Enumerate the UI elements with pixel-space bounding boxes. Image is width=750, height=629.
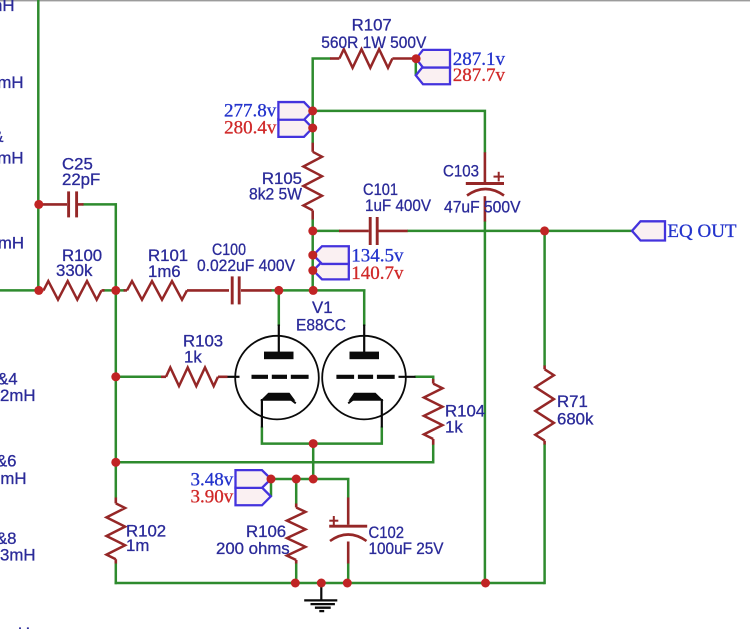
svg-text:1k: 1k xyxy=(445,418,463,437)
label fragment 7&8 xyxy=(0,529,17,548)
label fragment 5&6 xyxy=(0,452,17,471)
wire right plate lead xyxy=(363,290,366,326)
probe flag 280.4v xyxy=(278,119,312,137)
junction R71-output xyxy=(540,226,549,235)
resistor R106 xyxy=(216,504,306,564)
wire C103 bottom to ground xyxy=(484,221,487,584)
svg-text:1m6: 1m6 xyxy=(148,262,181,281)
capacitor C101 xyxy=(339,180,432,245)
svg-text:5&6: 5&6 xyxy=(0,452,17,471)
wire R107 to probe dot xyxy=(412,57,417,60)
wire grid to R104 xyxy=(415,377,434,380)
svg-text:R71: R71 xyxy=(557,392,588,411)
wire stub to 287.7v flag xyxy=(415,59,418,76)
wire output net to EQ OUT xyxy=(407,230,633,233)
svg-text:8k2 5W: 8k2 5W xyxy=(249,184,302,203)
probe flag 134.5v xyxy=(313,246,349,264)
resistor R103 xyxy=(161,332,228,387)
junction probe 287.1v xyxy=(412,54,421,63)
wire right cathode drop xyxy=(313,427,382,444)
junction C102 ground xyxy=(343,579,352,588)
resistor R101 xyxy=(124,246,230,300)
voltage label 134.5v xyxy=(351,246,404,267)
wire C102 bottom xyxy=(347,563,350,584)
capacitor C25 xyxy=(40,155,100,218)
svg-text:200 ohms: 200 ohms xyxy=(216,539,290,558)
svg-text:680k: 680k xyxy=(557,410,594,429)
wire R106 top xyxy=(295,479,298,504)
junction cathode-C102 xyxy=(309,475,318,484)
voltage label 140.7v xyxy=(351,263,404,284)
wire between R100 and R101 xyxy=(103,289,125,292)
label fragment mH 6 xyxy=(0,469,26,488)
svg-text:mH: mH xyxy=(0,73,24,92)
label fragment mH 4 xyxy=(0,234,24,253)
svg-text:140.7v: 140.7v xyxy=(351,263,404,284)
svg-text:287.7v: 287.7v xyxy=(453,65,506,86)
wire node-A vertical x=116 xyxy=(115,203,118,498)
probe flag 3.90v xyxy=(236,488,271,506)
label fragment 1.3mH xyxy=(0,546,36,565)
resistor R100 xyxy=(40,246,105,300)
wire probe row y=479 xyxy=(271,479,348,498)
voltage label 3.48v xyxy=(190,470,233,491)
resistor R102 xyxy=(107,498,167,564)
junction C25-left xyxy=(34,200,43,209)
wire top net to C103 xyxy=(313,111,485,153)
junction R106 ground xyxy=(291,579,300,588)
svg-text:1.2mH: 1.2mH xyxy=(0,386,36,405)
wire C101 left stub xyxy=(313,230,340,233)
wire R105 bottom to grid-node xyxy=(311,219,314,292)
svg-text:330k: 330k xyxy=(56,261,93,280)
wire stub to 3.90v flag xyxy=(270,479,273,496)
junction R106 top xyxy=(292,475,301,484)
wire R102 bottom xyxy=(115,563,118,584)
wire plate supply node x=313 xyxy=(311,111,314,143)
svg-text:EQ OUT: EQ OUT xyxy=(667,221,737,242)
junction plate node xyxy=(309,286,318,295)
voltage label 280.4v xyxy=(224,118,277,139)
label fragment 3&4 xyxy=(0,370,18,389)
wire cathode to probe node xyxy=(312,444,315,480)
wire feedback rail y=462 xyxy=(116,444,433,462)
triode V1 E88CC xyxy=(228,298,416,428)
junction cathode xyxy=(309,439,318,448)
svg-text:560R 1W 500V: 560R 1W 500V xyxy=(321,33,427,52)
voltage label 287.7v xyxy=(453,65,506,86)
wire C100 to plate node xyxy=(271,289,366,292)
svg-text:C103: C103 xyxy=(443,162,479,181)
probe flag 140.7v xyxy=(313,262,349,280)
svg-text:280.4v: 280.4v xyxy=(224,118,277,139)
svg-text:22pF: 22pF xyxy=(62,170,100,189)
probe flag 277.8v xyxy=(278,102,312,120)
label fragment mH 3 xyxy=(0,149,24,168)
junction input node xyxy=(34,286,43,295)
svg-text:mH: mH xyxy=(0,234,24,253)
label fragment mH 2 xyxy=(0,73,24,92)
junction probe 3.48v xyxy=(267,475,276,484)
junction probe 140.7v xyxy=(308,266,317,275)
svg-text:mH: mH xyxy=(0,0,15,15)
junction R103 branch xyxy=(111,372,120,381)
probe flag 287.7v xyxy=(416,67,450,85)
label fragment amp 3 xyxy=(0,127,4,146)
wire left plate lead xyxy=(278,290,281,326)
port EQ OUT xyxy=(632,221,737,242)
wire C25 branch xyxy=(83,203,118,206)
junction probe 277.8v xyxy=(308,106,317,115)
svg-text:E88CC: E88CC xyxy=(296,316,346,335)
junction C103 ground xyxy=(481,579,490,588)
probe flag 3.48v xyxy=(236,470,272,488)
wire R103 stub xyxy=(116,376,162,379)
ground xyxy=(304,583,337,611)
svg-text:100uF 25V: 100uF 25V xyxy=(369,539,445,558)
svg-text:3.90v: 3.90v xyxy=(190,487,233,508)
resistor R105 xyxy=(249,143,322,220)
wire left vertical bus xyxy=(37,0,40,292)
junction C101 node xyxy=(308,226,317,235)
svg-text:mH: mH xyxy=(0,469,26,488)
top window border xyxy=(0,0,750,1)
capacitor C103 xyxy=(443,152,521,221)
label fragment mH top-left xyxy=(0,0,15,15)
wire main input net y=290 xyxy=(0,289,43,292)
resistor R107 xyxy=(321,16,427,68)
voltage label 287.1v xyxy=(453,49,506,70)
capacitor C102 xyxy=(329,498,444,564)
svg-text:1.3mH: 1.3mH xyxy=(0,546,36,565)
wire B+ corner to R107 xyxy=(313,59,331,112)
label fragment bottom xyxy=(4,624,30,629)
wire left cathode drop xyxy=(262,427,313,444)
junction ground stem xyxy=(317,579,326,588)
wire R71 bottom xyxy=(543,444,546,584)
svg-text:mH: mH xyxy=(0,149,24,168)
svg-text:1k: 1k xyxy=(184,348,202,367)
voltage label 3.90v xyxy=(190,487,233,508)
junction probe 134.5v xyxy=(308,251,317,260)
junction left plate xyxy=(274,286,283,295)
svg-text:R107: R107 xyxy=(352,16,392,35)
svg-text:1uF 400V: 1uF 400V xyxy=(365,196,432,215)
svg-text:mH: mH xyxy=(4,624,30,629)
svg-text:1m: 1m xyxy=(126,536,149,555)
svg-text:0.022uF 400V: 0.022uF 400V xyxy=(197,256,296,275)
resistor R71 xyxy=(535,366,594,445)
wire ground rail y=583 xyxy=(115,582,545,585)
resistor R104 xyxy=(424,379,485,445)
label fragment 1.2mH xyxy=(0,386,36,405)
capacitor C100 xyxy=(197,240,296,304)
probe flag 287.1v xyxy=(416,50,450,68)
junction probe 280.4v xyxy=(308,124,317,133)
junction rail branch xyxy=(111,458,120,467)
svg-text:&: & xyxy=(0,127,4,146)
svg-text:47uF 500V: 47uF 500V xyxy=(444,198,521,217)
junction node A xyxy=(111,286,120,295)
voltage label 277.8v xyxy=(224,101,277,122)
svg-text:V1: V1 xyxy=(312,298,333,317)
wire R71 top xyxy=(543,231,546,366)
wire R106 bottom xyxy=(295,563,298,584)
